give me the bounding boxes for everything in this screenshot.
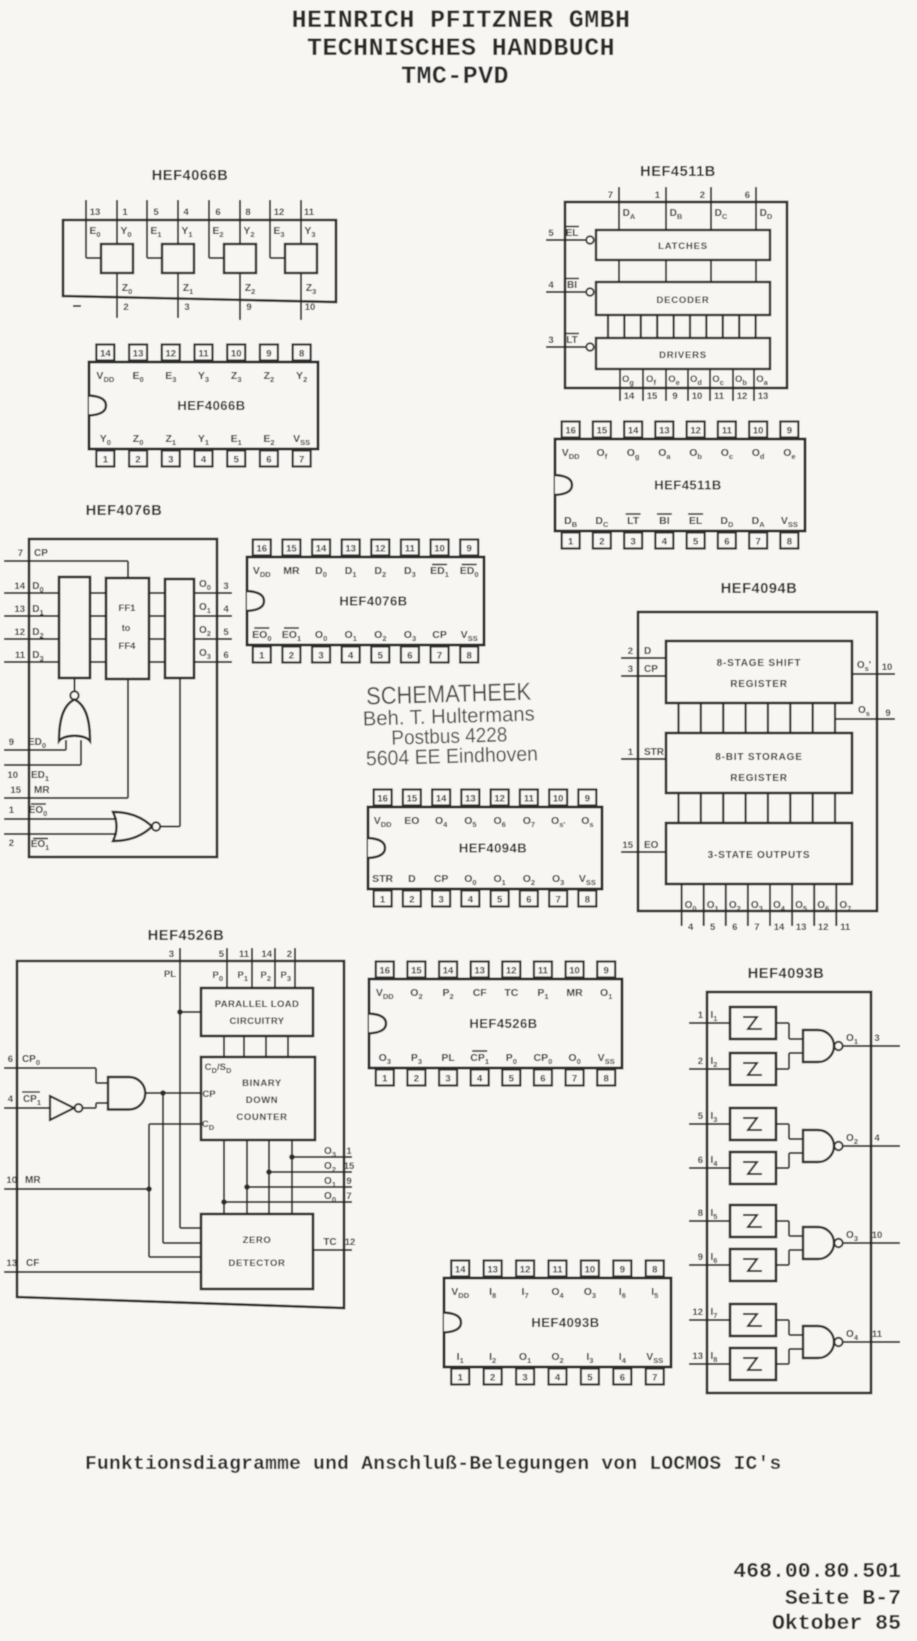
output wire O_c — [709, 369, 711, 401]
pin number 1 (EO0) — [9, 805, 15, 816]
shift-storage link 5 — [789, 703, 791, 733]
label Z_2 — [245, 282, 256, 296]
svg-text:TC: TC — [323, 1237, 336, 1248]
svg-text:7: 7 — [652, 1373, 657, 1384]
counter output vertical O_0 — [223, 1140, 225, 1214]
svg-text:STR: STR — [372, 873, 393, 885]
label P_2 — [260, 970, 271, 983]
label P_1 — [237, 970, 248, 983]
HEF4076B label D_1 (pin 13) — [345, 565, 357, 579]
HEF4526B outer box — [17, 961, 344, 1308]
HEF4511B label V_DD (pin 16) — [562, 447, 580, 461]
pin number 6 (CP0) — [8, 1054, 13, 1065]
HEF4066B label Y_2 (pin 8) — [296, 370, 307, 384]
svg-text:6: 6 — [223, 650, 228, 661]
shift-storage link 4 — [767, 703, 769, 733]
pin number 4 (O_2) — [874, 1133, 880, 1144]
svg-text:3: 3 — [628, 664, 633, 675]
svg-text:DRIVERS: DRIVERS — [659, 350, 707, 361]
HEF4094B pin 2 (bottom) — [403, 891, 421, 907]
HEF4094B label O_7 (pin 11) — [523, 815, 535, 829]
HEF4093B label I_1 (pin 1) — [457, 1351, 464, 1365]
pin number 10 (MR) — [6, 1175, 17, 1186]
HEF4094B label O_s (pin 9) — [581, 815, 593, 829]
schmitt trigger I_1 box — [730, 1007, 776, 1039]
label O_s — [858, 705, 870, 718]
HEF4511B pin 11 (top) — [718, 422, 736, 438]
svg-text:10: 10 — [305, 302, 316, 313]
svg-text:9: 9 — [787, 426, 792, 437]
switch cell 0 Y0 wire — [116, 200, 118, 244]
pin number 13 (E0) — [90, 207, 101, 218]
label O_d — [690, 374, 702, 387]
HEF4094B functional diagram title — [721, 581, 798, 597]
pin number 11 — [840, 922, 851, 933]
parallel-load to counter link 1 — [243, 1036, 245, 1057]
svg-text:HEF4093B: HEF4093B — [748, 966, 825, 982]
schmitt trigger I_8 box — [730, 1348, 776, 1380]
HEF4066B label Z_0 (pin 2) — [133, 433, 144, 447]
HEF4526B pin 1 (bottom) — [376, 1070, 394, 1086]
input wire CF pin 13 — [4, 1271, 201, 1273]
svg-text:2: 2 — [628, 646, 633, 657]
label O_2 — [729, 900, 741, 913]
NOR gate G1 (data enable) body — [59, 700, 90, 742]
pin number 14 — [774, 922, 785, 933]
switch cell 2 Y2 wire — [239, 200, 241, 244]
input wire CP pin 7 — [4, 561, 128, 578]
svg-text:9: 9 — [620, 1265, 625, 1276]
svg-text:4: 4 — [555, 1373, 561, 1384]
HEF4093B pin 10 (top) — [581, 1261, 599, 1277]
HEF4526B pin 6 (bottom) — [534, 1070, 552, 1086]
svg-text:6: 6 — [540, 1074, 545, 1085]
input wire I_7 pin 12 — [689, 1319, 730, 1321]
CP branch wire down to zero detector — [163, 1093, 201, 1243]
footer page number — [785, 1587, 901, 1611]
pin number 3 (Z1) — [184, 302, 189, 313]
HEF4093B label V_DD (pin 14) — [451, 1286, 469, 1300]
latches-decoder link 0 — [618, 260, 620, 282]
HEF4526B pin 5 (bottom) — [502, 1070, 520, 1086]
svg-text:FF4: FF4 — [119, 641, 137, 652]
output wire Os' pin 10 — [852, 673, 895, 675]
HEF4076B label V_SS (pin 8) — [461, 629, 478, 643]
input wire ED0 pin 9 — [4, 740, 66, 750]
HEF4094B pin 15 (top) — [403, 790, 421, 806]
svg-text:2: 2 — [135, 455, 140, 466]
svg-text:TECHNISCHES HANDBUCH: TECHNISCHES HANDBUCH — [307, 34, 615, 63]
output wire O0 pin 4 — [681, 884, 683, 926]
svg-text:LT: LT — [566, 335, 577, 346]
svg-text:11: 11 — [304, 207, 315, 218]
HEF4076B label MR (pin 15) — [283, 565, 300, 577]
svg-text:7: 7 — [572, 1074, 577, 1085]
svg-text:HEF4511B: HEF4511B — [640, 164, 716, 180]
dash mark bottom-left of HEF4066B box — [73, 305, 81, 307]
HEF4094B label O_0 (pin 4) — [464, 873, 476, 887]
HEF4066B pin 11 (top) — [195, 345, 213, 361]
svg-text:4: 4 — [662, 537, 668, 548]
HEF4066B label Y_1 (pin 4) — [198, 433, 209, 447]
HEF4511B pin 6 (bottom) — [718, 533, 736, 549]
output buffer block — [165, 579, 194, 678]
HEF4066B outer box — [63, 220, 336, 302]
input wire EO pin 15 — [621, 851, 666, 853]
HEF4511B label O_d (pin 10) — [752, 447, 765, 461]
HEF4526B label PL (pin 3) — [441, 1052, 455, 1064]
output wire O_3 pin 1 — [292, 1156, 352, 1158]
HEF4511B pin 3 (bottom) — [624, 533, 642, 549]
HEF4526B label MR (pin 10) — [566, 987, 583, 999]
HEF4076B label CP (pin 7) — [432, 629, 447, 641]
HEF4093B label I_6 (pin 9) — [619, 1286, 626, 1300]
svg-text:CP: CP — [434, 873, 449, 885]
decoder-drivers link 3 — [656, 315, 658, 338]
shift-storage link 3 — [744, 703, 746, 733]
label O_3 — [846, 1230, 858, 1243]
storage-3state link 2 — [722, 793, 724, 823]
input wire D3 pin 11 — [4, 661, 59, 663]
HEF4526B label O_3 (pin 1) — [379, 1052, 391, 1066]
switch cell 3 Y3 wire — [300, 200, 302, 244]
HEF4076B pin 6 (bottom) — [401, 647, 419, 663]
HEF4076B pin 15 (top) — [282, 540, 300, 556]
label O_e — [668, 374, 680, 387]
svg-text:4: 4 — [201, 455, 207, 466]
HEF4526B pin 8 (bottom) — [597, 1070, 615, 1086]
svg-text:1: 1 — [380, 895, 386, 906]
svg-text:7: 7 — [754, 922, 759, 933]
switch cell 3 Z3 wire — [300, 273, 302, 320]
HEF4094B label O_4 (pin 14) — [435, 815, 448, 829]
pin number 10 (Z3) — [305, 302, 316, 313]
HEF4526B functional diagram title — [148, 928, 225, 944]
svg-text:5: 5 — [710, 922, 716, 933]
HEF4511B label V_SS (pin 8) — [781, 515, 798, 529]
pin number 11 (O_c) — [714, 391, 725, 402]
svg-text:2: 2 — [289, 651, 294, 662]
input wire I_4 pin 6 — [689, 1167, 730, 1169]
svg-text:14: 14 — [455, 1265, 466, 1276]
HEF4066B pin 8 (top) — [293, 345, 311, 361]
label CP inside counter — [202, 1089, 216, 1100]
HEF4526B label O_0 (pin 7) — [568, 1052, 580, 1066]
label CP_1 with overline — [22, 1092, 41, 1107]
pin number 15 (EO) — [622, 840, 633, 851]
NAND gate 2 body — [803, 1130, 834, 1162]
pin number 4 (Y1) — [183, 207, 189, 218]
svg-text:Oktober 85: Oktober 85 — [772, 1612, 901, 1636]
input wire EO1 pin 2 — [4, 833, 117, 835]
HEF4093B pin 6 (bottom) — [613, 1369, 631, 1385]
svg-text:10: 10 — [753, 426, 764, 437]
svg-text:9: 9 — [698, 1252, 703, 1263]
svg-text:14: 14 — [774, 922, 785, 933]
svg-text:13: 13 — [345, 544, 356, 555]
junction dot O_0 — [221, 1199, 227, 1205]
pin number 14 — [261, 949, 272, 960]
svg-text:Funktionsdiagramme und Anschlu: Funktionsdiagramme und Anschluß-Belegung… — [85, 1453, 781, 1475]
svg-text:2: 2 — [698, 1056, 703, 1067]
svg-text:8: 8 — [585, 895, 590, 906]
svg-text:8: 8 — [698, 1208, 703, 1219]
label O_2 — [199, 625, 211, 638]
junction dot O_2 — [266, 1169, 272, 1175]
pin number 2 — [700, 190, 705, 201]
HEF4093B label I_8 (pin 13) — [489, 1286, 496, 1300]
switch element square 0 — [101, 244, 133, 273]
label EO_1 — [31, 839, 50, 853]
svg-text:MR: MR — [566, 987, 583, 999]
switch cell 3 E3 wire — [270, 200, 285, 258]
svg-text:5: 5 — [234, 455, 240, 466]
output wire O_0 pin 7 — [224, 1201, 352, 1203]
input wire MR pin 15 — [4, 679, 128, 798]
FF to output buffer wire 2 — [149, 638, 165, 640]
svg-text:9: 9 — [266, 349, 271, 360]
svg-text:HEF4526B: HEF4526B — [469, 1016, 537, 1031]
wire schmitt I_6 to NAND — [776, 1250, 803, 1265]
HEF4093B label O_4 (pin 11) — [551, 1286, 564, 1300]
svg-text:HEF4093B: HEF4093B — [531, 1315, 599, 1330]
label D_D — [760, 208, 773, 221]
svg-text:3: 3 — [445, 1074, 450, 1085]
switch cell 1 Y1 wire — [177, 200, 179, 244]
HEF4511B label D_B (pin 1) — [564, 515, 578, 529]
pin number 8 (Y2) — [245, 207, 250, 218]
svg-text:HEF4066B: HEF4066B — [177, 398, 245, 413]
svg-text:1: 1 — [458, 1373, 464, 1384]
HEF4094B label O_3 (pin 7) — [552, 873, 564, 887]
header line 3 — [401, 62, 509, 91]
HEF4511B label O_c (pin 11) — [721, 447, 733, 461]
decoder-drivers link 7 — [722, 315, 724, 338]
svg-text:14: 14 — [100, 349, 111, 360]
label O_5 — [795, 900, 807, 913]
svg-text:8: 8 — [467, 651, 472, 662]
decoder-drivers link 1 — [623, 315, 625, 338]
input wire P_0 pin 5 — [226, 948, 228, 988]
HEF4076B pin 11 (top) — [401, 540, 419, 556]
input wire DD pin 6 — [755, 187, 757, 230]
svg-text:8: 8 — [652, 1265, 657, 1276]
svg-text:5: 5 — [693, 537, 699, 548]
svg-text:8: 8 — [604, 1074, 609, 1085]
svg-text:3: 3 — [630, 537, 635, 548]
svg-text:2: 2 — [414, 1074, 419, 1085]
inverter N1 bubble — [75, 1104, 83, 1112]
shift-storage link 2 — [722, 703, 724, 733]
HEF4093B label I_4 (pin 6) — [619, 1351, 627, 1365]
HEF4066B pin 2 (bottom) — [129, 451, 147, 467]
svg-text:9: 9 — [585, 794, 590, 805]
svg-text:3: 3 — [874, 1033, 879, 1044]
svg-text:11: 11 — [198, 349, 209, 360]
buffer to FF wire 3 — [90, 661, 106, 663]
svg-text:HEF4094B: HEF4094B — [459, 841, 527, 856]
HEF4526B pin 10 (top) — [566, 962, 584, 978]
output wire O_e — [665, 369, 667, 401]
HEF4093B pin 13 (top) — [484, 1261, 502, 1277]
decoder-drivers link 9 — [754, 315, 756, 338]
8-stage shift register block — [666, 641, 852, 703]
svg-text:4: 4 — [348, 651, 354, 662]
HEF4526B pin 11 (top) — [534, 962, 552, 978]
HEF4511B label O_b (pin 12) — [689, 447, 702, 461]
NAND gate 1 body — [803, 1030, 834, 1062]
label ED_0 — [28, 737, 46, 750]
svg-text:9: 9 — [246, 302, 251, 313]
label CF — [26, 1258, 39, 1269]
label I_1 — [711, 1010, 718, 1023]
pin number 12 (E3) — [274, 207, 285, 218]
svg-text:8: 8 — [299, 349, 304, 360]
label EO_0 — [29, 804, 48, 818]
output wire Os pin 9 — [835, 703, 895, 719]
svg-text:10: 10 — [569, 966, 580, 977]
label STR — [644, 747, 665, 758]
svg-text:6: 6 — [266, 455, 271, 466]
svg-text:7: 7 — [346, 1191, 351, 1202]
HEF4094B label EO (pin 15) — [404, 815, 419, 827]
IC package HEF4066B body — [89, 362, 318, 449]
footer date — [772, 1612, 901, 1636]
HEF4511B pin 8 (bottom) — [780, 533, 798, 549]
HEF4526B label V_SS (pin 8) — [598, 1052, 615, 1066]
input wire PL pin 3 — [180, 948, 201, 1228]
svg-text:1: 1 — [346, 1146, 352, 1157]
svg-text:10: 10 — [7, 770, 18, 781]
pin number 12 (TC) — [345, 1237, 356, 1248]
HEF4511B label O_a (pin 13) — [658, 447, 671, 461]
PL branch wire to parallel load block — [180, 1011, 201, 1013]
label O_f — [646, 374, 656, 387]
output wire O2 — [194, 638, 232, 640]
HEF4526B label P_1 (pin 11) — [537, 987, 548, 1001]
HEF4093B outer box — [707, 992, 871, 1393]
schmitt trigger I_5 box — [730, 1205, 776, 1237]
AND gate G3 output wire to counter CP — [146, 1092, 202, 1094]
HEF4094B pin 3 (bottom) — [432, 891, 450, 907]
HEF4093B pin 2 (bottom) — [484, 1369, 502, 1385]
pin number 4 (O1) — [223, 604, 229, 615]
input wire D2 pin 12 — [4, 638, 59, 640]
HEF4076B label EO_0 (pin 1) — [252, 628, 271, 643]
HEF4526B label P_2 (pin 14) — [442, 987, 453, 1001]
label O_s' — [857, 660, 871, 673]
HEF4093B label O_3 (pin 10) — [584, 1286, 596, 1300]
HEF4094B label O_5 (pin 13) — [464, 815, 476, 829]
HEF4094B pin 5 (bottom) — [491, 891, 509, 907]
pin number 2 (EO1) — [9, 838, 14, 849]
label C_D/S_D inside counter — [205, 1062, 232, 1075]
HEF4066B pin 12 (top) — [162, 345, 180, 361]
schmitt trigger I_3 box — [730, 1108, 776, 1140]
HEF4094B pin 10 (top) — [549, 790, 567, 806]
input wire P_3 pin 2 — [294, 948, 296, 988]
input wire P_2 pin 14 — [274, 948, 276, 988]
svg-text:12: 12 — [14, 627, 25, 638]
HEF4526B label CF (pin 13) — [473, 987, 488, 999]
counter output vertical O_2 — [268, 1140, 270, 1214]
HEF4093B label I_2 (pin 2) — [489, 1351, 496, 1365]
label O_4 — [846, 1329, 859, 1342]
switch cell 0 Z0 wire — [116, 273, 118, 318]
HEF4066B label Z_3 (pin 10) — [231, 370, 242, 384]
control input BI pin 4 — [546, 279, 594, 296]
HEF4076B pin 2 (bottom) — [282, 647, 300, 663]
svg-text:1: 1 — [9, 805, 15, 816]
input wire D pin 2 — [621, 657, 666, 659]
svg-text:3: 3 — [223, 581, 228, 592]
SCHEMATHEEK stamp — [362, 678, 539, 770]
HEF4093B pin 8 (top) — [646, 1261, 664, 1277]
pin number 15 (MR) — [10, 785, 21, 796]
label O_1 — [707, 900, 719, 913]
svg-text:9: 9 — [9, 737, 14, 748]
svg-text:13: 13 — [474, 966, 485, 977]
HEF4511B pin 2 (bottom) — [593, 533, 611, 549]
svg-text:COUNTER: COUNTER — [236, 1112, 287, 1123]
svg-text:3: 3 — [169, 949, 174, 960]
label O_6 — [817, 900, 829, 913]
storage-3state link 0 — [677, 793, 679, 823]
svg-text:PL: PL — [164, 969, 176, 980]
label Y_3 — [304, 225, 315, 239]
label D_A — [623, 208, 636, 221]
storage-3state link 1 — [700, 793, 702, 823]
label I_7 — [711, 1307, 718, 1320]
HEF4511B pin 7 (bottom) — [749, 533, 767, 549]
pin number 13 (CF) — [6, 1258, 17, 1269]
svg-text:10: 10 — [6, 1175, 17, 1186]
HEF4076B label D_0 (pin 14) — [315, 565, 327, 579]
label O_4 — [773, 900, 786, 913]
IC package HEF4076B body — [247, 557, 484, 645]
label I_2 — [711, 1056, 718, 1069]
HEF4526B pin 4 (bottom) — [471, 1070, 489, 1086]
svg-text:TC: TC — [504, 987, 518, 999]
svg-text:CP: CP — [432, 629, 447, 641]
svg-text:3: 3 — [438, 895, 443, 906]
HEF4066B label E_2 (pin 6) — [263, 433, 274, 447]
HEF4526B label TC (pin 12) — [504, 987, 518, 999]
HEF4511B pin 1 (bottom) — [562, 533, 580, 549]
HEF4094B label D (pin 2) — [408, 873, 416, 885]
wire schmitt I_8 to NAND — [776, 1349, 803, 1364]
input wire I_6 pin 9 — [689, 1264, 730, 1266]
pin number 3 (O_1) — [874, 1033, 879, 1044]
HEF4066B label Y_3 (pin 11) — [198, 370, 209, 384]
label Y_2 — [243, 225, 254, 239]
counter C_D wire to zero detector — [149, 1124, 201, 1257]
svg-text:12: 12 — [520, 1265, 531, 1276]
label O_2 — [324, 1161, 336, 1174]
svg-text:3: 3 — [522, 1373, 527, 1384]
pin number 5 — [219, 949, 225, 960]
HEF4076B pin 16 (top) — [253, 540, 271, 556]
svg-text:MR: MR — [283, 565, 300, 577]
HEF4526B label V_DD (pin 16) — [376, 987, 394, 1001]
svg-text:CF: CF — [473, 987, 488, 999]
HEF4094B label V_DD (pin 16) — [374, 815, 392, 829]
HEF4526B pin 2 (bottom) — [407, 1070, 425, 1086]
HEF4526B label CP_0 (pin 6) — [534, 1052, 553, 1066]
pin number 6 — [732, 922, 737, 933]
HEF4093B pin 11 (top) — [549, 1261, 567, 1277]
pin number 7 — [608, 190, 613, 201]
